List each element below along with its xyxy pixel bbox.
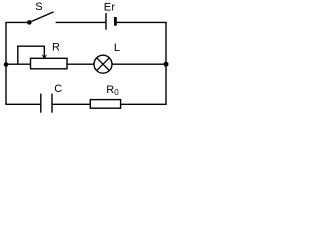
switch pivot junction — [27, 20, 32, 25]
svg-text:E: E — [104, 2, 111, 14]
lamp cross — [97, 58, 110, 71]
wire switch to battery — [56, 21, 106, 23]
rheostat R — [18, 42, 67, 69]
switch blade — [29, 12, 53, 23]
wire rheostat to lamp — [67, 63, 94, 65]
wire left to rheostat — [6, 63, 31, 65]
wire right vertical — [165, 22, 167, 104]
wire capacitor to R0 — [52, 103, 90, 105]
resistor R0 box — [90, 100, 120, 109]
node left junction — [4, 62, 9, 67]
rheostat arrowhead — [41, 54, 47, 59]
wire R0 to bottom right corner — [121, 103, 167, 105]
capacitor right plate — [51, 94, 53, 113]
battery short thick plate — [114, 17, 117, 26]
svg-text:r: r — [111, 2, 115, 14]
wire top left segment — [5, 21, 29, 23]
svg-text:R: R — [52, 42, 60, 54]
svg-text:C: C — [54, 83, 62, 95]
wire battery to top right corner — [115, 21, 166, 23]
switch S — [27, 1, 54, 25]
svg-text:L: L — [114, 42, 120, 54]
lamp circle — [94, 55, 112, 73]
battery long plate — [105, 13, 107, 30]
wire bottom left segment — [5, 103, 41, 105]
battery E r — [104, 2, 116, 30]
rheostat slider wire — [18, 46, 45, 64]
svg-text:S: S — [35, 1, 42, 13]
node right junction — [164, 62, 169, 67]
wire left vertical — [5, 22, 7, 104]
wire lamp to right — [112, 63, 166, 65]
capacitor C — [41, 83, 63, 113]
lamp L — [94, 42, 120, 73]
rheostat body box — [31, 58, 68, 69]
capacitor left plate — [40, 94, 42, 113]
resistor R0 — [90, 84, 120, 108]
